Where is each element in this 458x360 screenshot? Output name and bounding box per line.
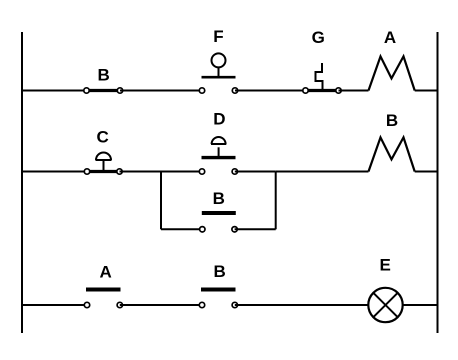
switch G (closed, detent step actuator) bbox=[303, 63, 341, 93]
svg-text:A: A bbox=[384, 28, 396, 47]
svg-text:B: B bbox=[214, 262, 226, 281]
lamp E (indicator light) bbox=[368, 288, 402, 322]
svg-text:E: E bbox=[380, 256, 391, 275]
wire rung1 coil A to right rail bbox=[415, 90, 438, 92]
svg-text:A: A bbox=[99, 263, 111, 282]
svg-text:B: B bbox=[98, 66, 110, 85]
wire rung3 contact A to contact B bbox=[120, 304, 202, 306]
contact A rung3 (open) bbox=[84, 290, 122, 308]
contact B parallel branch (open) bbox=[200, 213, 238, 232]
contact B rung1 (closed) bbox=[84, 88, 123, 93]
wire rung3 rail to contact A bbox=[22, 304, 87, 306]
wire rung2 pushbutton C to branch junction bbox=[120, 171, 163, 173]
svg-text:C: C bbox=[97, 128, 109, 147]
wire rung2 rail to pushbutton C bbox=[22, 171, 87, 173]
pushbutton C (closed, dome head) bbox=[84, 153, 122, 175]
svg-text:B: B bbox=[213, 189, 225, 208]
contact B rung3 (open) bbox=[199, 290, 237, 308]
svg-text:D: D bbox=[213, 110, 225, 129]
relay coil B (zigzag) bbox=[369, 137, 415, 171]
wire rung3 contact B to lamp E bbox=[235, 304, 368, 306]
wire rung1 switch G to coil A bbox=[339, 90, 369, 92]
wire rung2 coil B to right rail bbox=[415, 171, 438, 173]
wire rung1 pushbutton F to switch G bbox=[235, 90, 306, 92]
svg-text:F: F bbox=[213, 27, 223, 46]
branch left vertical wire bbox=[160, 172, 162, 230]
pushbutton F (open, round head) bbox=[199, 53, 237, 93]
left power rail bbox=[21, 32, 23, 333]
wire rung1 rail to contact B bbox=[22, 90, 87, 92]
branch right vertical wire bbox=[275, 172, 277, 230]
wire rung1 contact B to pushbutton F bbox=[120, 90, 202, 92]
svg-text:B: B bbox=[386, 111, 398, 130]
svg-text:G: G bbox=[312, 28, 325, 47]
wire rung2 junction to pushbutton D bbox=[161, 171, 202, 173]
relay coil A (zigzag) bbox=[369, 56, 415, 90]
branch lower wire right bbox=[235, 228, 276, 230]
branch lower wire left bbox=[161, 228, 202, 230]
wire rung3 lamp E to right rail bbox=[403, 304, 438, 306]
pushbutton D (open, dome head) bbox=[199, 137, 237, 174]
wire rung2 junction to coil B bbox=[276, 171, 369, 173]
right power rail bbox=[437, 32, 439, 333]
wire rung2 pushbutton D to right junction bbox=[235, 171, 276, 173]
